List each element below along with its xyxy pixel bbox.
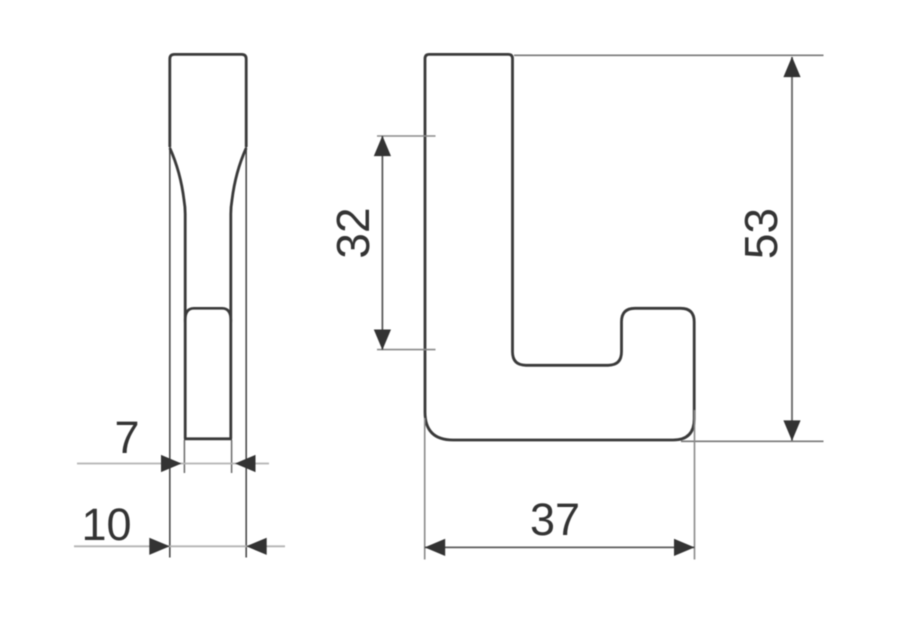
dimension line 37 bbox=[425, 546, 695, 548]
dimension line 32 bbox=[381, 136, 383, 350]
extension line top for 32 dim bbox=[377, 135, 436, 137]
side view: top rectangle outline bbox=[170, 54, 246, 147]
arrow 37 right bbox=[674, 539, 695, 556]
extension line top for 53 dim bbox=[514, 54, 824, 56]
extension line bottom for 32 dim bbox=[377, 349, 436, 351]
arrow 53 bottom bbox=[783, 420, 800, 441]
side view: left taper curve into 7mm column bbox=[170, 148, 185, 439]
side view: bottom edge of 7mm column bbox=[184, 437, 232, 440]
arrow 32 top bbox=[374, 136, 391, 157]
arrow 37 left bbox=[425, 539, 446, 556]
svg-text:10: 10 bbox=[81, 499, 131, 550]
dimension line 53 bbox=[791, 57, 793, 441]
arrow 7 left bbox=[161, 455, 182, 472]
extension line bottom for 53 dim bbox=[681, 440, 824, 442]
arrow 32 bottom bbox=[374, 330, 391, 351]
front view: hook outline bbox=[425, 54, 694, 440]
dimension line 10 bbox=[74, 545, 285, 547]
side view: outer left silhouette / extension line bbox=[169, 147, 171, 558]
side view: right taper curve into 7mm column bbox=[231, 148, 246, 439]
side view: hook tip rounded top edge bbox=[185, 308, 231, 322]
extension line right for 37 dim bbox=[694, 410, 696, 560]
arrow 53 top bbox=[783, 57, 800, 78]
side view: outer right silhouette / extension line bbox=[245, 147, 247, 558]
arrow 7 right bbox=[235, 455, 256, 472]
arrow 10 right bbox=[246, 538, 267, 555]
extension line drop right for 7 dim bbox=[231, 440, 233, 473]
svg-text:37: 37 bbox=[530, 494, 580, 545]
svg-text:53: 53 bbox=[735, 208, 787, 259]
svg-text:32: 32 bbox=[327, 207, 379, 258]
svg-text:7: 7 bbox=[114, 412, 139, 463]
arrow 10 left bbox=[149, 538, 170, 555]
dimension line 7 bbox=[77, 463, 269, 465]
extension line drop left for 7 dim bbox=[183, 440, 185, 473]
extension line left for 37 dim bbox=[424, 418, 426, 560]
